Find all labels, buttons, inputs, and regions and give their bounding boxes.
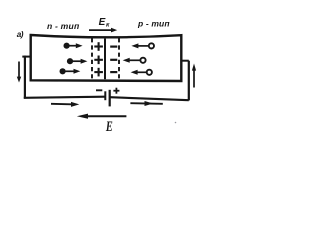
p-n metallurgical junction line (middle, solid) <box>104 39 106 80</box>
acceptor ion - (row 1) <box>110 45 117 47</box>
scan speck <box>175 122 177 124</box>
wire: bottom left segment <box>24 97 105 98</box>
svg-text:к: к <box>106 21 110 28</box>
EMF arrow (points left, under battery) <box>77 114 127 119</box>
electron 1 (filled dot with right arrow) <box>64 43 83 49</box>
battery minus label <box>96 89 102 91</box>
svg-text:р - тип: р - тип <box>137 18 170 28</box>
semiconductor body box <box>31 35 182 81</box>
current arrow right (bottom right wire) <box>130 101 162 106</box>
hole 2 <box>123 58 146 63</box>
svg-text:а): а) <box>17 30 24 39</box>
acceptor ion - (row 3) <box>110 71 117 73</box>
wire: left vertical <box>24 56 26 99</box>
current arrow up (right side) <box>192 64 196 88</box>
svg-text:Е: Е <box>105 119 113 135</box>
wire: bottom right segment <box>110 97 189 100</box>
battery positive plate (long) <box>109 90 111 107</box>
wire: right stub to box <box>181 60 189 62</box>
current arrow down (left side) <box>17 62 21 83</box>
donor ion + (row 2) <box>94 56 103 65</box>
svg-text:n - тип: n - тип <box>47 21 80 31</box>
donor ion + (row 3) <box>94 68 103 77</box>
acceptor ion - (row 2) <box>110 59 117 61</box>
donor ion + (row 1) <box>94 42 103 51</box>
battery negative plate (short) <box>104 91 106 100</box>
electron 3 <box>60 68 81 74</box>
depletion boundary dashed line (left, n-side) <box>91 38 93 79</box>
contact field Ek arrow (above junction) <box>89 28 117 33</box>
svg-text:E: E <box>99 17 106 28</box>
current arrow right (bottom left wire) <box>51 102 79 107</box>
wire: left stub from box <box>22 56 30 58</box>
electron 2 <box>67 58 88 64</box>
hole 3 <box>131 70 152 75</box>
hole 1 (open circle with left arrow) <box>131 43 154 48</box>
depletion boundary dashed line (right, p-side) <box>118 38 120 79</box>
battery plus label <box>113 88 119 94</box>
wire: right vertical <box>188 61 190 101</box>
